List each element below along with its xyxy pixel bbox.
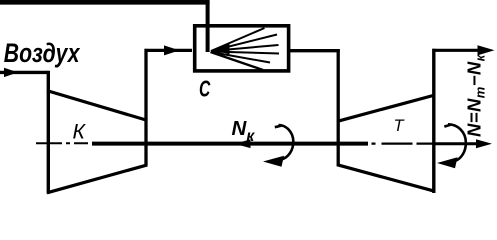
svg-text:Воздух: Воздух [4, 39, 81, 69]
shaft centerline right (dash-dot in turbine) [372, 143, 434, 145]
air inlet line [0, 71, 48, 74]
svg-text:К: К [73, 121, 87, 144]
compressor K right edge / outlet duct vertical [144, 49, 147, 166]
turbine T top edge [337, 95, 435, 121]
turbine T left edge / inlet vertical [337, 49, 340, 166]
turbine output arrowhead [478, 45, 495, 55]
shaft arrowhead Nк (pointing left) [235, 139, 251, 148]
injector spray ray 4 [211, 52, 279, 54]
fuel line vertical drop into chamber [206, 1, 210, 52]
chamber outlet duct to turbine [287, 49, 340, 52]
turbine output line (top right) [433, 49, 481, 52]
shaft centerline left (dash-dot) [36, 142, 93, 144]
injector spray ray 5 [211, 52, 270, 63]
fuel supply line (top horizontal) [0, 0, 210, 5]
injector spray ray 3 [211, 45, 279, 51]
shaft (solid thick) [92, 142, 368, 146]
compressor K top edge [47, 91, 147, 121]
air inlet arrowhead [4, 68, 18, 77]
injector spray ray 2 [211, 35, 277, 52]
turbine T right edge [432, 49, 435, 193]
rotation arrow middle: tail hook [275, 126, 282, 128]
injector arrowhead [214, 44, 230, 55]
injector spray ray 6 (bottom cone edge) [211, 52, 264, 70]
combustion chamber C box [195, 26, 289, 71]
shaft output stub right [436, 142, 480, 145]
injector spray ray 1 (top cone edge) [211, 28, 265, 51]
rotation arrow right: tail hook [444, 125, 450, 127]
compressor K bottom edge [47, 165, 147, 193]
compressor outlet arrowhead [164, 45, 180, 55]
svg-text:C: C [199, 77, 211, 103]
compressor outlet duct horizontal [145, 49, 193, 52]
rotation arrow right: arc [448, 124, 466, 161]
compressor K left edge [47, 71, 50, 194]
rotation arrow right: arrowhead [437, 157, 458, 168]
rotation arrow middle: arrowhead [263, 156, 284, 167]
shaft output arrowhead right [476, 139, 492, 148]
rotation arrow middle: arc [279, 125, 294, 160]
turbine T bottom edge [337, 165, 435, 192]
